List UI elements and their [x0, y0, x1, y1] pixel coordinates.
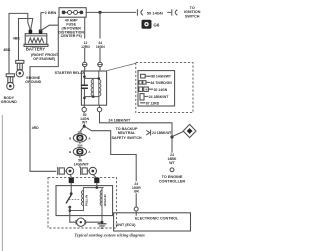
wire fuse to relay terminal left: [84, 17, 86, 62]
mechanical link dashed: [69, 198, 80, 200]
svg-text:4RD: 4RD: [32, 126, 39, 130]
wire relay to backup switch: [100, 112, 173, 153]
svg-text:SWITCH: SWITCH: [185, 15, 200, 19]
svg-text:SAFETY SWITCH: SAFETY SWITCH: [111, 136, 141, 140]
connector C1 in ignition feed: [137, 10, 142, 16]
svg-text:50 14GN: 50 14GN: [147, 11, 163, 16]
svg-text:84 TN/RD/GN: 84 TN/RD/GN: [151, 81, 173, 85]
coil hold-in: [100, 188, 102, 223]
wire motor run: [70, 221, 102, 223]
svg-text:GR: GR: [134, 190, 140, 194]
wire contact down to motor: [69, 207, 71, 222]
ground starter case: [98, 224, 107, 228]
svg-text:14GN/WT: 14GN/WT: [74, 162, 90, 166]
svg-text:16GN: 16GN: [96, 45, 105, 49]
starter assembly dashed box: [48, 178, 117, 228]
svg-text:STARTER RELAY: STARTER RELAY: [55, 71, 86, 75]
svg-text:12RD: 12RD: [81, 45, 90, 49]
terminal relay bottom left: [83, 105, 85, 107]
wire B+ to contact: [70, 183, 72, 193]
coil relay secondary: [99, 71, 101, 105]
wire relay internal left: [83, 71, 85, 105]
eyelet terminal solenoid wire: [81, 167, 97, 177]
svg-text:2 BRN: 2 BRN: [45, 11, 57, 15]
wire junction to relay terminal right: [99, 12, 101, 62]
wire relay internal top: [84, 77, 98, 79]
svg-text:4BK: 4BK: [13, 37, 21, 41]
svg-text:UNIT (ECU): UNIT (ECU): [116, 223, 137, 227]
wire connector to starter solenoid: [79, 156, 81, 168]
label 50 14GN WT relay output: [83, 111, 85, 114]
svg-text:TO ENGINE: TO ENGINE: [162, 175, 183, 179]
svg-text:86 14GN/WT: 86 14GN/WT: [151, 75, 172, 79]
coil pull-in: [70, 188, 84, 211]
engine ground: [16, 60, 42, 84]
svg-text:IGNITION: IGNITION: [184, 10, 201, 14]
motor starter M1: [76, 218, 86, 226]
svg-text:4BK: 4BK: [3, 48, 11, 52]
fuse 40 amp F6: [58, 8, 86, 39]
wire S terminal to coils: [83, 183, 103, 188]
terminal starter B+: [69, 178, 74, 183]
wire relay internal bottom: [84, 96, 98, 98]
svg-text:WT: WT: [82, 121, 88, 125]
pin 86: [141, 74, 146, 78]
capacitor relay suppression: [81, 85, 88, 88]
svg-text:NEUTRAL: NEUTRAL: [118, 131, 136, 135]
terminal starter S: [94, 178, 99, 183]
connector C201 oval: [69, 134, 91, 142]
eyelet terminal battery cable: [58, 167, 74, 177]
svg-text:HOLD-IN: HOLD-IN: [103, 195, 107, 207]
label 44 16GN: [95, 39, 106, 48]
svg-text:PULL-IN: PULL-IN: [85, 195, 89, 206]
svg-text:BATTERY: BATTERY: [26, 47, 46, 52]
node splice relay output: [83, 125, 86, 128]
node junction ignition feed: [98, 11, 101, 14]
splice S1 diamond: [183, 124, 196, 137]
svg-text:30 14GN: 30 14GN: [154, 88, 168, 92]
wire between connectors: [79, 142, 81, 148]
connector stub 24 18BK/WT: [147, 130, 151, 135]
svg-text:87 12RD: 87 12RD: [146, 101, 160, 105]
wire battery negative to body ground: [9, 13, 30, 73]
svg-text:Typical starting system wiring: Typical starting system wiring diagram: [74, 232, 145, 237]
switch solenoid contact: [70, 192, 73, 195]
pin 24: [140, 94, 144, 100]
svg-text:ELECTRONIC CONTROL: ELECTRONIC CONTROL: [135, 217, 179, 221]
terminal relay top right: [98, 62, 102, 66]
wire battery positive cable to starter: [30, 17, 58, 171]
node junction backup feed: [170, 135, 173, 138]
svg-text:CENTER F6): CENTER F6): [61, 34, 83, 38]
svg-text:GROUND: GROUND: [1, 100, 17, 104]
svg-text:G6: G6: [153, 23, 160, 28]
pin 87: [140, 102, 145, 104]
wire 2 BRN stub from battery positive: [41, 13, 44, 31]
connector engine controller stub: [170, 168, 174, 172]
wire to splice diamond: [173, 131, 184, 136]
wire relay output to connectors: [80, 124, 136, 180]
pin 85: [139, 81, 142, 84]
svg-text:24 18BK/WT: 24 18BK/WT: [108, 119, 131, 123]
svg-text:CONTROLLER: CONTROLLER: [159, 180, 186, 184]
terminal relay top left: [83, 62, 87, 66]
callout line relay to detail: [107, 63, 136, 71]
svg-text:24 18BK/WT: 24 18BK/WT: [149, 95, 170, 99]
connector ECU pin: [134, 207, 138, 211]
svg-text:24 18BK/WT: 24 18BK/WT: [152, 131, 173, 135]
connector G6: [142, 20, 160, 29]
label 12 12RD: [80, 39, 91, 48]
svg-text:TO: TO: [190, 6, 195, 10]
wire fuse to ignition switch: [86, 11, 135, 13]
svg-text:GROUND: GROUND: [25, 80, 41, 84]
relay detail dashed box: [136, 63, 193, 113]
pin 30: [139, 87, 143, 91]
starter solenoid box: [56, 186, 113, 216]
starter relay box: [55, 71, 107, 105]
wire battery negative to engine ground: [19, 19, 33, 60]
left page border artifact: [1, 115, 3, 251]
relay connector pinout box: [138, 71, 175, 106]
ECU box: [114, 213, 191, 231]
node pull-in junction: [69, 209, 72, 212]
terminal relay bottom right: [99, 105, 101, 107]
battery: [24, 29, 59, 61]
connector C2 in ignition feed: [168, 10, 177, 16]
svg-text:OF ENGINE): OF ENGINE): [33, 57, 56, 61]
body ground: [1, 74, 17, 104]
connector C200 oval: [69, 148, 91, 156]
svg-text:(RIGHT FRONT: (RIGHT FRONT: [31, 53, 59, 57]
coil relay primary: [91, 78, 93, 96]
wire into ECU: [135, 194, 137, 207]
svg-text:WT: WT: [169, 161, 175, 165]
